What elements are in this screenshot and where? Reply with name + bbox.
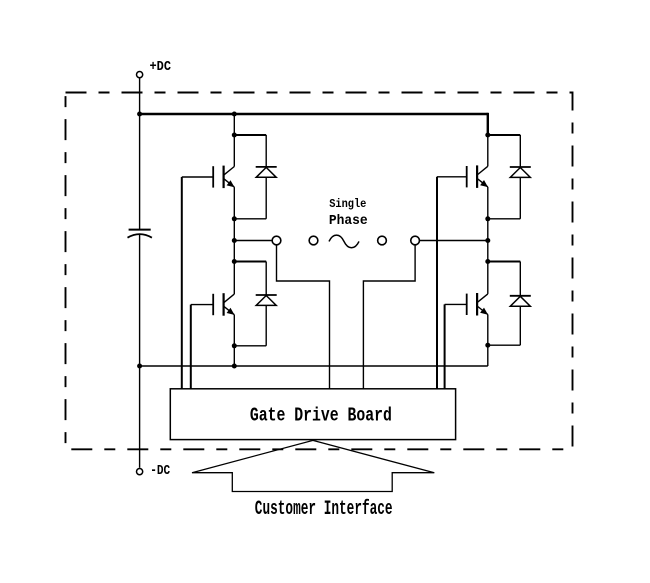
svg-text:Gate Drive Board: Gate Drive Board: [250, 404, 392, 426]
svg-text:Phase: Phase: [329, 214, 368, 229]
svg-text:-DC: -DC: [150, 463, 170, 479]
svg-text:Single: Single: [329, 197, 366, 211]
svg-text:Customer Interface: Customer Interface: [255, 498, 393, 521]
svg-text:+DC: +DC: [150, 59, 172, 75]
